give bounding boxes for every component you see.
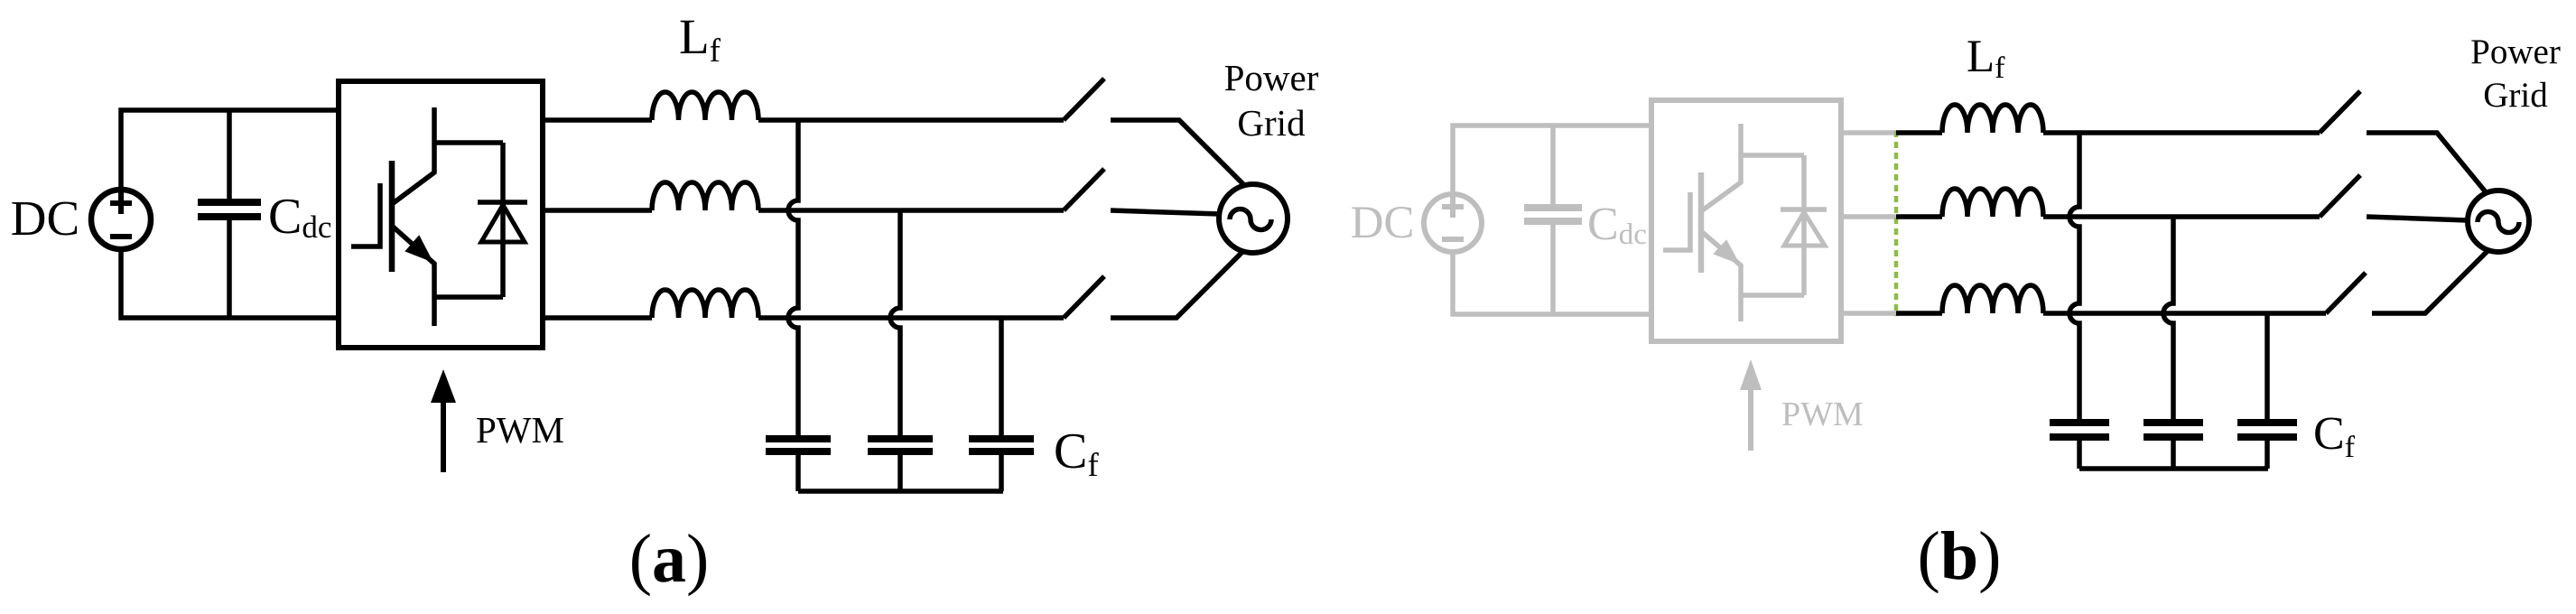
voltage source DC (b) greyed: [1424, 194, 1482, 252]
wire Cf phase C bottom stub (b): [2264, 441, 2270, 469]
capacitor Cdc (a): [198, 202, 261, 217]
transistor IGBT Q2 (b) greyed: [1663, 124, 1804, 321]
svg-text:PWM: PWM: [1781, 395, 1864, 433]
svg-text:(a): (a): [629, 521, 710, 597]
wire DC negative rail (b) greyed: [1453, 252, 1651, 314]
wire filter branch A with crossover hops (a): [788, 120, 798, 435]
svg-text:Cdc: Cdc: [268, 189, 331, 245]
wire switch phase B to grid (b): [2367, 217, 2468, 220]
wire Cf common bottom bus (b): [2079, 466, 2268, 471]
capacitor Cf phase A (b): [2050, 423, 2109, 437]
wire Cf phase B bottom stub (a): [897, 455, 903, 491]
wire filter branch C (b): [2264, 313, 2270, 419]
wire phase B to switch (b): [2043, 214, 2320, 219]
capacitor Cf phase B (b): [2144, 423, 2203, 437]
wire Cf phase A bottom stub (a): [795, 455, 801, 491]
transistor IGBT Q1 (a): [351, 107, 503, 326]
wire phase A to switch (b): [2043, 130, 2320, 135]
capacitor Cdc (b) greyed: [1524, 208, 1582, 221]
inductor Lf phase B (a): [652, 182, 758, 210]
svg-text:Lf: Lf: [1967, 32, 2005, 85]
wire phase A input (b): [1896, 130, 1942, 135]
voltage source DC (a): [91, 190, 151, 249]
wire filter branch B with crossover hop (a): [890, 210, 900, 435]
svg-text:Cf: Cf: [1054, 423, 1099, 484]
wire Cf phase A bottom stub (b): [2077, 441, 2082, 469]
switch phase B blade (a): [1064, 169, 1104, 210]
PWM input arrow (b) greyed: [1740, 359, 1762, 451]
svg-text:(b): (b): [1918, 518, 2002, 594]
svg-text:Power: Power: [1224, 57, 1319, 98]
wire switch phase C to grid (b): [2372, 250, 2488, 313]
wire phase B input (b): [1896, 214, 1942, 219]
wire inverter output stub B (b) greyed: [1841, 214, 1896, 219]
wire Cf common bottom bus (a): [798, 488, 1003, 494]
wire DC positive rail (a): [121, 110, 339, 190]
svg-text:DC: DC: [11, 191, 79, 246]
wire phase C to switch (a): [758, 315, 1064, 321]
diode D1 (a): [478, 143, 527, 297]
capacitor Cf phase B (a): [868, 439, 933, 451]
svg-text:Cf: Cf: [2313, 408, 2356, 464]
wire switch phase A to grid (a): [1111, 120, 1245, 186]
switch phase B blade (b): [2320, 175, 2360, 217]
wire inverter output stub C (b) greyed: [1841, 311, 1896, 316]
AC source Power Grid (a): [1219, 184, 1288, 253]
wire phase B to switch (a): [758, 208, 1064, 213]
inverter block U1 (a): [339, 81, 543, 348]
capacitor Cf phase C (b): [2237, 423, 2297, 437]
wire switch phase A to grid (b): [2367, 133, 2487, 193]
inverter block U2 (b) greyed: [1651, 100, 1841, 341]
wire phase A to switch (a): [758, 117, 1064, 123]
inductor Lf phase C (b): [1942, 285, 2043, 313]
switch phase C blade (b): [2326, 273, 2366, 313]
AC source Power Grid (b): [2468, 191, 2529, 252]
wire phase A output (a): [543, 117, 652, 123]
svg-text:Lf: Lf: [679, 9, 721, 70]
wire phase C to switch (b): [2043, 311, 2326, 316]
svg-text:DC: DC: [1351, 198, 1415, 248]
wire DC positive rail (b) greyed: [1453, 126, 1651, 194]
svg-text:Grid: Grid: [2483, 76, 2548, 115]
svg-text:PWM: PWM: [476, 409, 564, 451]
wire phase C input (b): [1896, 311, 1942, 316]
wire inverter output stub A (b) greyed: [1841, 130, 1896, 135]
capacitor Cf phase C (a): [969, 439, 1034, 451]
wire phase C output (a): [543, 315, 652, 321]
separation boundary dashed line (b): [1894, 131, 1899, 316]
wire filter branch B with crossover hop (b): [2163, 217, 2173, 419]
switch phase A blade (a): [1064, 79, 1104, 120]
wire switch phase C to grid (a): [1111, 251, 1243, 318]
inductor Lf phase C (a): [652, 290, 758, 318]
diode D2 (b) greyed: [1781, 155, 1827, 295]
inductor Lf phase A (a): [652, 92, 758, 120]
inductor Lf phase A (b): [1942, 105, 2043, 133]
wire switch phase B to grid (a): [1111, 210, 1220, 214]
wire Cdc top lead (b) greyed: [1550, 126, 1556, 204]
switch phase A blade (b): [2320, 91, 2360, 133]
wire Cdc bottom lead (b) greyed: [1550, 225, 1556, 314]
PWM input arrow (a): [431, 369, 456, 472]
wire filter branch C (a): [999, 318, 1004, 435]
inductor Lf phase B (b): [1942, 189, 2043, 217]
svg-text:Cdc: Cdc: [1587, 199, 1647, 251]
svg-text:Grid: Grid: [1237, 102, 1305, 144]
wire DC negative rail (a): [121, 250, 339, 318]
wire filter branch A with crossover hops (b): [2069, 133, 2079, 419]
wire Cf phase B bottom stub (b): [2171, 441, 2176, 469]
wire phase B output (a): [543, 208, 652, 213]
capacitor Cf phase A (a): [766, 439, 831, 451]
svg-text:Power: Power: [2470, 33, 2561, 71]
wire Cdc top lead (a): [227, 110, 232, 199]
wire Cf phase C bottom stub (a): [999, 455, 1004, 491]
switch phase C blade (a): [1064, 276, 1104, 318]
wire Cdc bottom lead (a): [227, 220, 232, 318]
